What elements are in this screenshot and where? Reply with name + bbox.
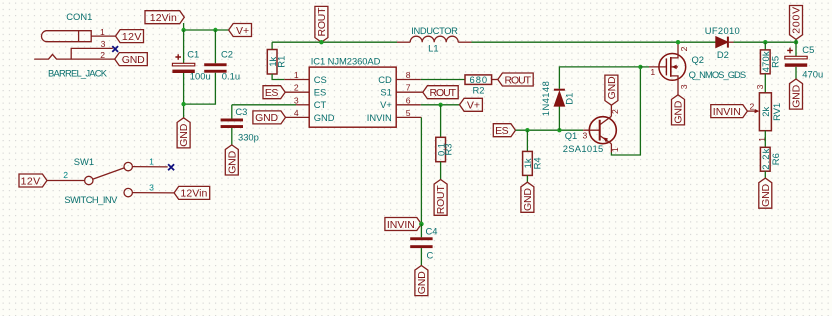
wire C2 bottom lead to C1 net	[184, 73, 216, 104]
global label ROUT at IC1 pin 7	[423, 86, 458, 99]
svg-text:C4: C4	[426, 225, 438, 236]
resistor R5	[760, 50, 770, 74]
svg-text:12V: 12V	[122, 31, 142, 43]
svg-text:R4: R4	[532, 157, 543, 169]
svg-text:GND: GND	[314, 112, 335, 123]
svg-text:2: 2	[100, 50, 105, 60]
svg-text:2SA1015: 2SA1015	[563, 143, 604, 154]
no-connect flag on CON1 pin 3	[112, 46, 118, 52]
svg-text:Q2: Q2	[692, 54, 705, 65]
svg-text:200V: 200V	[791, 7, 803, 34]
IC1 pin 8	[396, 79, 421, 81]
transistor Q1 2SA1015 PNP	[583, 105, 616, 152]
wire pin3 net from C3 to IC1	[232, 104, 296, 106]
global label V+ at IC1 pin 6	[460, 98, 483, 111]
svg-text:Q_NMOS_GDS: Q_NMOS_GDS	[689, 69, 747, 80]
node switching rail junction at Q2 drain	[676, 40, 680, 44]
wire 12Vin label drop	[183, 23, 185, 30]
global label GND below R4	[521, 182, 534, 212]
wire R4 top lead	[526, 130, 528, 151]
wire R1 bottom lead to IC1 pin 1	[272, 74, 284, 80]
svg-text:C5: C5	[802, 44, 814, 55]
svg-text:4: 4	[294, 108, 299, 118]
svg-text:D2: D2	[717, 49, 729, 60]
svg-text:GND: GND	[416, 271, 428, 294]
global label GND above Q1	[605, 75, 618, 105]
global label 12V at SW1 pin 2	[19, 174, 47, 187]
svg-text:V+: V+	[380, 99, 392, 110]
wire C5 bottom lead	[795, 67, 797, 79]
CON1 pin 1	[91, 35, 116, 37]
wire C3 bottom lead	[231, 128, 233, 145]
svg-text:0.1u: 0.1u	[222, 71, 240, 82]
wire C4 top lead	[420, 224, 422, 237]
svg-text:470u: 470u	[802, 69, 823, 80]
wire C3 top lead	[231, 105, 233, 119]
global label ROUT on switching rail	[315, 6, 328, 42]
wire R3 bottom lead	[440, 162, 442, 180]
svg-text:ROUT: ROUT	[316, 7, 328, 37]
global label ROUT below R3	[434, 180, 447, 216]
svg-text:R2: R2	[473, 85, 485, 96]
resistor R4	[523, 151, 533, 175]
svg-text:R5: R5	[769, 56, 780, 68]
global label V+ on input rail	[229, 24, 252, 37]
svg-text:1: 1	[100, 27, 105, 37]
svg-text:CON1: CON1	[66, 11, 92, 22]
IC1 pin 2	[285, 91, 309, 93]
svg-text:12V: 12V	[21, 175, 41, 187]
wire ES rail to Q1 base	[516, 129, 584, 131]
switch SW1 body	[85, 162, 133, 196]
wire input rail to V+	[184, 29, 229, 31]
CON1 pin 3	[71, 48, 113, 59]
svg-text:C3: C3	[235, 106, 247, 117]
svg-text:GND: GND	[760, 183, 772, 206]
svg-text:GND: GND	[673, 100, 685, 123]
global label ROUT at R2	[498, 73, 533, 86]
transistor Q2 NMOS body	[649, 42, 686, 95]
svg-text:R6: R6	[770, 153, 781, 165]
IC1 pin 5	[396, 116, 421, 118]
svg-text:BARREL_JACK: BARREL_JACK	[48, 67, 108, 78]
global label 12Vin at SW1 pin 3	[174, 186, 210, 199]
node output junction at C5	[794, 40, 798, 44]
resistor R3	[436, 137, 446, 161]
svg-text:C2: C2	[221, 49, 233, 60]
svg-text:INVIN: INVIN	[387, 219, 415, 231]
op-amp controller IC1 NJM2360AD body	[309, 67, 396, 127]
svg-text:SWITCH_INV: SWITCH_INV	[64, 194, 118, 205]
svg-text:ROUT: ROUT	[435, 185, 447, 215]
svg-text:1: 1	[650, 67, 655, 77]
wire R4 bottom lead	[526, 175, 528, 182]
wire C4 bottom lead	[420, 248, 422, 265]
svg-text:3: 3	[149, 182, 154, 192]
wire switching rail right segment	[472, 41, 716, 43]
wire R5 top lead	[764, 42, 766, 50]
wire C1 top lead	[183, 30, 185, 63]
svg-text:SW1: SW1	[74, 156, 94, 167]
svg-text:2: 2	[294, 83, 299, 93]
global label GND at IC1 pin 4	[253, 111, 286, 124]
node filter ground junction	[181, 102, 185, 106]
svg-text:ES: ES	[495, 125, 509, 137]
wire IC1 pin 6 to V+	[421, 104, 460, 106]
L1 right pin	[458, 41, 471, 43]
capacitor C3	[221, 119, 243, 129]
node 12Vin junction at C2	[213, 28, 217, 32]
node ES junction at D1	[557, 128, 561, 132]
IC1 pin 6	[396, 104, 421, 106]
svg-text:2: 2	[679, 46, 689, 51]
wire switching rail left segment	[272, 41, 397, 43]
svg-text:ES: ES	[265, 87, 279, 99]
capacitor C2	[204, 63, 226, 72]
wire D2 cathode to output node	[734, 41, 797, 43]
wire C2 top lead	[214, 30, 216, 63]
svg-text:GND: GND	[226, 150, 238, 173]
capacitor C4	[410, 237, 432, 248]
wire D1 anode lead	[558, 106, 560, 130]
IC1 pin 1	[284, 79, 309, 81]
capacitor C5 polarized	[785, 48, 807, 67]
wire R3 top lead	[440, 105, 442, 138]
svg-text:6: 6	[406, 95, 411, 105]
svg-text:3: 3	[679, 84, 689, 89]
node ES junction at R4	[525, 128, 529, 132]
svg-text:1N4148: 1N4148	[540, 81, 551, 116]
svg-text:S1: S1	[380, 87, 391, 98]
svg-text:GND: GND	[178, 123, 190, 146]
global label GND below R6	[759, 178, 772, 208]
svg-text:D1: D1	[563, 93, 574, 105]
global label INVIN at C4	[385, 218, 422, 231]
svg-text:V+: V+	[236, 25, 249, 37]
wire Q1 emitter to gate rail	[611, 67, 640, 155]
wire IC1 pin 8 to R2	[421, 79, 465, 81]
svg-text:ROUT: ROUT	[505, 74, 532, 86]
svg-text:CD: CD	[378, 74, 392, 85]
svg-text:GND: GND	[606, 76, 618, 99]
svg-text:3: 3	[101, 39, 106, 49]
svg-text:330p: 330p	[238, 132, 259, 143]
global label GND below C1 C2	[177, 118, 190, 148]
svg-text:8: 8	[406, 70, 411, 80]
svg-text:RV1: RV1	[771, 103, 782, 121]
global label INVIN at RV1 wiper	[711, 105, 748, 118]
IC1 pin 3	[296, 104, 309, 106]
IC1 pin 4	[286, 116, 310, 118]
wire output node to C5	[795, 39, 797, 56]
connector CON1 barrel jack body	[41, 31, 91, 42]
svg-text:GND: GND	[122, 54, 145, 66]
svg-text:3: 3	[583, 130, 588, 140]
node INVIN junction at C4	[419, 222, 424, 227]
svg-text:INVIN: INVIN	[713, 106, 741, 118]
svg-text:1: 1	[149, 157, 154, 167]
svg-text:Q1: Q1	[565, 130, 578, 141]
svg-text:12Vin: 12Vin	[150, 12, 177, 24]
svg-text:3: 3	[755, 84, 765, 89]
svg-text:2k: 2k	[760, 107, 771, 117]
global label ES at IC1 pin 2	[263, 86, 285, 99]
node ROUT label junction	[319, 40, 323, 44]
svg-text:UF2010: UF2010	[705, 25, 740, 36]
global label ES at Q1 base net	[493, 124, 515, 137]
global label 12V at CON1 pin 1	[116, 30, 144, 43]
diode D2 UF2010	[716, 37, 734, 48]
svg-text:CT: CT	[314, 99, 327, 110]
L1 left pin	[397, 41, 410, 43]
wire gate rail to Q2	[640, 66, 649, 68]
wire C1 bottom lead	[183, 73, 185, 118]
svg-text:680: 680	[470, 74, 488, 85]
SW1 pin 1	[132, 166, 167, 168]
svg-text:C1: C1	[187, 49, 199, 60]
potentiometer RV1	[747, 93, 771, 131]
global label GND at CON1 pin 2	[115, 53, 148, 66]
resistor R6	[760, 147, 770, 171]
global label GND below C3	[225, 145, 238, 175]
svg-text:C: C	[427, 250, 434, 261]
R2 right lead	[492, 79, 498, 81]
node 12Vin junction at C1	[181, 28, 185, 32]
IC1 pin 7	[396, 91, 423, 93]
CON1 pin 2 sleeve contact	[34, 54, 115, 59]
svg-text:1: 1	[610, 147, 620, 152]
SW1 pin 3	[132, 192, 174, 194]
wire R6 bottom lead	[764, 171, 766, 178]
capacitor C1 polarized	[172, 54, 194, 73]
global label GND below C5	[790, 79, 803, 109]
wire IC1 pin 5 to INVIN net	[420, 117, 422, 224]
resistor R2	[465, 75, 492, 85]
global label GND below Q2	[672, 95, 685, 125]
svg-text:V+: V+	[467, 100, 480, 112]
global label 12Vin feeding input rail	[145, 11, 184, 24]
svg-text:IC1 NJM2360AD: IC1 NJM2360AD	[311, 55, 381, 66]
svg-text:GND: GND	[255, 112, 278, 124]
no-connect flag on SW1 pin 1	[168, 164, 174, 170]
svg-text:1: 1	[294, 70, 299, 80]
svg-text:R1: R1	[276, 56, 287, 68]
wire RV1 to R6	[764, 131, 766, 148]
wire R1 top lead from rail	[271, 42, 273, 49]
resistor R1	[267, 50, 277, 75]
svg-text:2: 2	[63, 170, 68, 180]
global label 200V at output	[790, 6, 803, 40]
svg-text:7: 7	[406, 83, 411, 93]
diode D1 1N4148	[554, 89, 565, 106]
svg-text:GND: GND	[522, 188, 534, 211]
svg-text:GND: GND	[791, 84, 803, 107]
svg-text:2: 2	[750, 102, 755, 112]
svg-text:INVIN: INVIN	[367, 112, 392, 123]
SW1 pin 2	[47, 180, 85, 182]
svg-text:ES: ES	[314, 87, 327, 98]
svg-text:INDUCTOR: INDUCTOR	[411, 25, 458, 36]
node gate rail junction	[638, 65, 642, 69]
wire D1 cathode to gate rail	[559, 67, 640, 89]
wire R5 bottom lead to RV1	[764, 74, 766, 93]
svg-text:3: 3	[294, 95, 299, 105]
svg-text:L1: L1	[428, 43, 438, 54]
node V+ to R3 junction	[438, 103, 442, 107]
svg-text:ROUT: ROUT	[430, 87, 457, 99]
svg-text:12Vin: 12Vin	[180, 188, 207, 200]
svg-text:5: 5	[406, 108, 411, 118]
global label GND below C4	[415, 266, 428, 296]
svg-text:R3: R3	[443, 144, 454, 156]
inductor L1	[410, 36, 458, 42]
node output junction at R5	[763, 40, 767, 44]
svg-text:2: 2	[610, 109, 620, 114]
svg-text:CS: CS	[314, 74, 327, 85]
